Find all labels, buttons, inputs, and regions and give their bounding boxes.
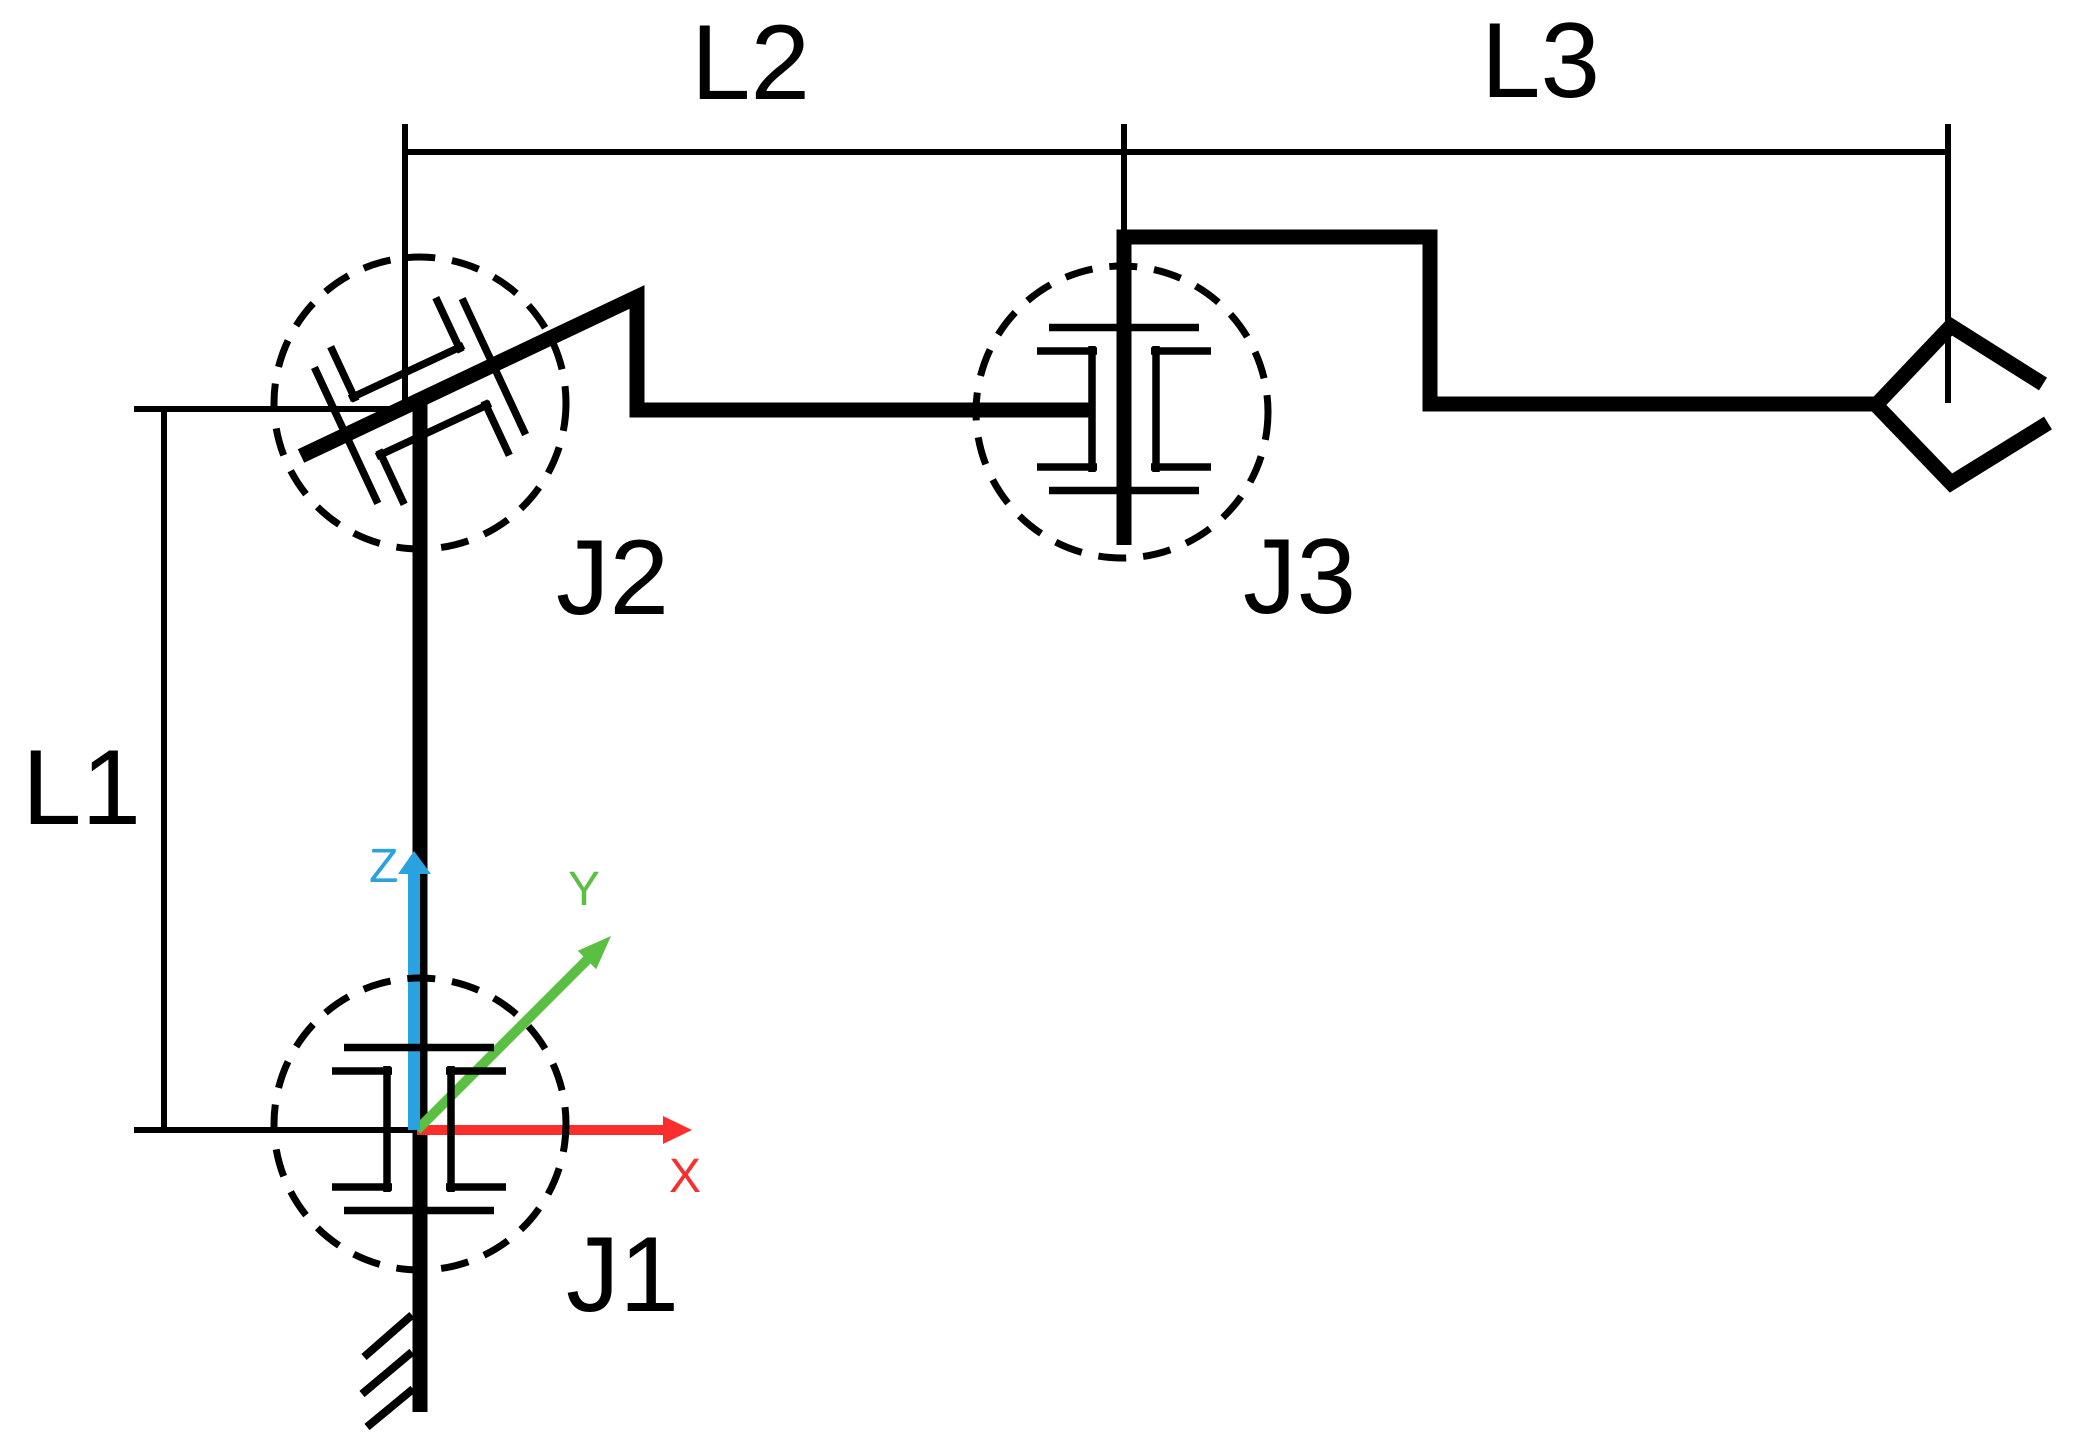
coordinate axis Z (blue) bbox=[398, 851, 431, 1130]
coordinate axis Y (green) bbox=[417, 936, 611, 1130]
ground hatch stroke 3 bbox=[367, 1389, 413, 1427]
svg-text:Y: Y bbox=[568, 863, 600, 916]
joint J3 dashed circle bbox=[976, 266, 1268, 558]
dimension tick L1 bottom bbox=[134, 1127, 413, 1133]
ground hatch stroke 1 bbox=[364, 1315, 412, 1357]
svg-text:L1: L1 bbox=[22, 727, 141, 847]
end effector jaw bottom bbox=[1876, 405, 2048, 483]
svg-text:Z: Z bbox=[369, 840, 398, 893]
dimension line L1 vertical bbox=[161, 409, 167, 1130]
end effector jaw top bbox=[1876, 326, 2043, 405]
joint J3 revolute symbol bbox=[1037, 328, 1211, 491]
joint J2 revolute symbol (rotated 65deg) bbox=[309, 288, 530, 515]
svg-text:X: X bbox=[669, 1150, 701, 1203]
joint J1 dashed circle bbox=[274, 978, 566, 1270]
svg-text:J3: J3 bbox=[1243, 516, 1356, 636]
ground hatch stroke 2 bbox=[362, 1352, 412, 1394]
joint J2 dashed circle bbox=[274, 257, 566, 549]
dimension tick at end-effector axis bbox=[1945, 124, 1951, 403]
link L1 shaft from J2 down through J1 to ground bbox=[413, 403, 428, 1412]
joint J1 revolute symbol bbox=[332, 1048, 506, 1211]
svg-text:L3: L3 bbox=[1481, 0, 1600, 120]
svg-text:J1: J1 bbox=[566, 1214, 679, 1334]
dimension tick at J3 axis bbox=[1121, 124, 1127, 240]
svg-text:J2: J2 bbox=[556, 517, 669, 637]
joint J2 pin shaft (diagonal) bbox=[301, 297, 1094, 456]
dimension line spanning L2 and L3 bbox=[405, 149, 1948, 155]
dimension tick at J2 axis bbox=[402, 124, 408, 412]
coordinate axis X (red) bbox=[417, 1116, 692, 1144]
link L3 from joint J3 shaft to end effector bbox=[1124, 237, 1876, 545]
dimension tick L1 top bbox=[134, 406, 406, 412]
svg-text:L2: L2 bbox=[691, 2, 810, 122]
